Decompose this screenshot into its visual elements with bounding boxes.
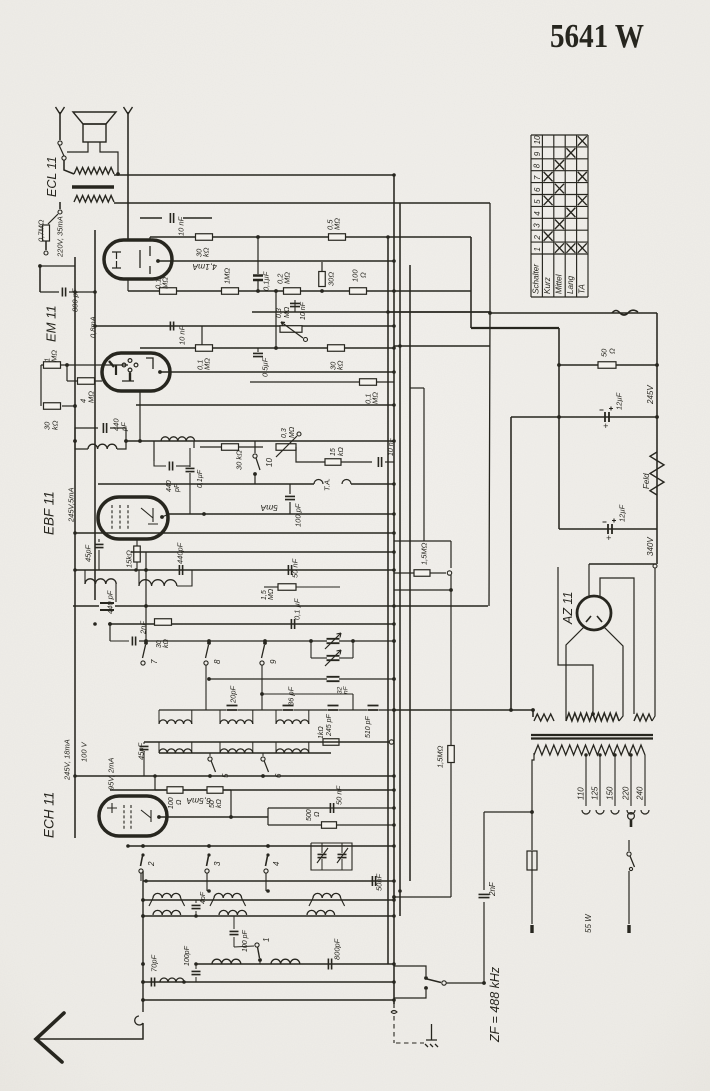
wire (209, 678, 327, 680)
svg-text:125: 125 (590, 786, 599, 800)
switch speaker (58, 141, 62, 145)
svg-text:0,1µF: 0,1µF (197, 469, 204, 488)
series capacitor row710 (283, 706, 294, 711)
wire (483, 902, 485, 983)
wire (339, 640, 394, 642)
wire to 800pF (45, 241, 47, 250)
junction (509, 708, 513, 712)
svg-text:0,3: 0,3 (281, 428, 288, 438)
wire (143, 899, 394, 901)
svg-text:T.A.: T.A. (322, 478, 331, 491)
wire (267, 808, 269, 825)
capacitor 440pF d (100, 603, 114, 610)
wire (154, 776, 156, 790)
wire (39, 266, 41, 292)
junction (392, 289, 396, 293)
wire (75, 569, 394, 571)
junction (202, 512, 206, 516)
wire (74, 257, 76, 838)
wire 220 tap plug (628, 813, 635, 820)
TA input terminals (314, 480, 351, 485)
svg-text:MΩ: MΩ (332, 218, 341, 230)
svg-text:MΩ: MΩ (370, 392, 379, 404)
resistor 1kOhm body (323, 739, 339, 746)
junction (392, 914, 396, 918)
junction (256, 235, 260, 239)
junction (655, 363, 659, 367)
junction (207, 889, 211, 893)
junction (557, 363, 561, 367)
junction (160, 515, 164, 519)
wire (143, 999, 394, 1001)
svg-text:0,3: 0,3 (276, 308, 283, 318)
capacitor 10nF top (170, 213, 173, 223)
junction (124, 439, 128, 443)
wire (149, 237, 151, 240)
junction (141, 998, 145, 1002)
wire (257, 348, 259, 352)
junction (392, 403, 396, 407)
variable capacitor b (327, 656, 340, 660)
wire (388, 311, 490, 313)
capacitor 10nF c (170, 322, 173, 331)
transformer core (531, 735, 653, 739)
wire (257, 281, 259, 291)
wire (145, 552, 147, 641)
svg-text:EBF 11: EBF 11 (42, 491, 57, 535)
output transformer primary winding (74, 168, 114, 175)
wire (95, 380, 102, 382)
wire (385, 461, 394, 463)
junction (144, 639, 148, 643)
wire (321, 843, 323, 853)
junction (557, 415, 561, 419)
svg-text:3: 3 (533, 223, 542, 228)
wire (339, 709, 367, 711)
wire (614, 755, 616, 806)
junction (392, 173, 396, 177)
wire (470, 237, 472, 328)
wire (394, 709, 533, 711)
wire (490, 312, 657, 314)
svg-text:1MΩ: 1MΩ (222, 268, 231, 284)
junction (194, 962, 198, 966)
wire (158, 710, 160, 724)
wire (254, 474, 256, 484)
loudspeaker (56, 107, 133, 142)
svg-text:100 pF: 100 pF (293, 503, 302, 527)
coil band top (276, 720, 309, 724)
wire (399, 203, 401, 916)
wire (159, 816, 268, 818)
svg-text:10 nF: 10 nF (177, 325, 186, 345)
tube AZ11 envelope (577, 596, 611, 630)
svg-text:100: 100 (168, 797, 175, 809)
wire (259, 960, 261, 964)
wire (110, 623, 394, 625)
junction (108, 622, 112, 626)
svg-text:4,1mA: 4,1mA (192, 262, 217, 272)
svg-text:440: 440 (166, 480, 173, 492)
junction (253, 472, 257, 476)
wire (589, 563, 656, 565)
wire (275, 710, 277, 724)
wire pot to 15k (296, 447, 325, 462)
capacitor 2nF bottom plates (479, 894, 490, 897)
wire (294, 310, 296, 312)
svg-text:Schalter: Schalter (532, 264, 541, 294)
wire (250, 381, 359, 383)
pot wiper ta (276, 436, 297, 457)
wire (483, 812, 485, 890)
wire (559, 528, 657, 530)
wire magnet leads (67, 142, 88, 152)
svg-text:500: 500 (306, 809, 313, 821)
resistor 30kOhm (196, 234, 213, 241)
junction (144, 568, 148, 572)
junction (398, 344, 402, 348)
junction (194, 914, 198, 918)
svg-text:245V: 245V (646, 385, 655, 405)
junction (93, 290, 97, 294)
svg-text:245V,5mA: 245V,5mA (66, 488, 75, 523)
capacitor 4pF plates (192, 905, 201, 908)
wire (252, 311, 490, 313)
svg-text:7: 7 (533, 175, 542, 180)
junction (73, 439, 77, 443)
junction (144, 641, 148, 645)
coil det (88, 444, 117, 449)
junction (266, 853, 269, 856)
svg-text:10: 10 (265, 458, 274, 467)
fuse (527, 851, 537, 870)
capacitor 800pF (62, 288, 65, 297)
wire x424 loop (423, 388, 425, 541)
svg-text:45pF: 45pF (83, 544, 92, 562)
wire (341, 461, 372, 463)
junction (398, 889, 402, 893)
wire (294, 709, 327, 711)
junction (392, 324, 396, 328)
junction (73, 531, 77, 535)
svg-text:10: 10 (533, 135, 542, 144)
junction (141, 898, 145, 902)
capacitor 50nF bottom plates (372, 876, 375, 886)
junction (424, 976, 428, 980)
wire (262, 753, 264, 756)
tube AZ11 filament (586, 616, 602, 622)
svg-text:30Ω: 30Ω (326, 272, 335, 286)
wire (531, 851, 533, 870)
junction (392, 622, 396, 626)
wire (183, 217, 212, 219)
junction (207, 641, 211, 645)
svg-text:ECL 11: ECL 11 (45, 156, 59, 197)
coil skirt (181, 898, 185, 906)
coil skirt (242, 898, 246, 906)
wire (289, 502, 291, 514)
wire (394, 540, 451, 542)
junction (392, 788, 396, 792)
junction (182, 980, 186, 984)
svg-text:800pF: 800pF (332, 938, 341, 960)
junction (392, 879, 396, 883)
coil band bottom (159, 749, 192, 753)
junction (141, 853, 144, 856)
wire (239, 446, 263, 448)
svg-text:1,5: 1,5 (261, 590, 268, 600)
junction (266, 844, 270, 848)
series capacitor row710 (368, 706, 379, 711)
wire (136, 539, 138, 546)
svg-text:5mA: 5mA (260, 503, 278, 513)
coil ant mid (219, 910, 247, 915)
wire (308, 742, 310, 753)
junction (73, 568, 77, 572)
wire (195, 911, 197, 916)
junction (531, 708, 535, 712)
wire (95, 325, 394, 327)
wire (289, 484, 291, 494)
wire (311, 657, 327, 659)
svg-text:MΩ: MΩ (49, 350, 58, 362)
wire (265, 873, 267, 891)
junction (629, 753, 632, 756)
junction (392, 980, 396, 984)
capacitor 12uF a (605, 412, 609, 422)
wire (296, 586, 340, 588)
wire (75, 775, 394, 777)
svg-text:Ω: Ω (314, 811, 321, 817)
wire az anode left (566, 626, 585, 721)
wire az filament top (588, 564, 590, 596)
capacitor 10nF ta (378, 457, 381, 467)
junction (73, 290, 77, 294)
junction (263, 641, 267, 645)
capacitor 440pF series (179, 565, 182, 575)
svg-text:5641 W: 5641 W (550, 18, 644, 55)
wire (394, 896, 451, 898)
wire (294, 300, 296, 312)
wire switch za top (394, 966, 426, 976)
junction (274, 346, 278, 350)
svg-text:MΩ: MΩ (268, 588, 275, 600)
svg-text:9: 9 (533, 151, 542, 156)
resistor 500 Ohm (322, 822, 337, 829)
wire (126, 440, 394, 442)
coil band top (159, 720, 192, 724)
capacitor 45pF osc plates (140, 746, 149, 749)
junction (141, 962, 145, 966)
wire (352, 694, 354, 710)
wire (393, 1000, 395, 1008)
junction (386, 235, 390, 239)
wire (321, 859, 323, 870)
junction (207, 853, 210, 856)
capacitor 12uF b (608, 524, 612, 534)
capacitor 0,5uF (253, 353, 263, 356)
junction (93, 622, 97, 626)
svg-text:245 pF: 245 pF (326, 713, 333, 737)
wire (40, 291, 59, 293)
svg-text:MΩ: MΩ (202, 358, 211, 370)
capacitor 45pF symbol (95, 544, 104, 547)
svg-text:EM 11: EM 11 (43, 305, 58, 342)
svg-text:100 V: 100 V (79, 741, 88, 762)
svg-text:50 nF: 50 nF (334, 785, 343, 805)
wire (339, 678, 394, 680)
svg-text:ZF = 488 kHz: ZF = 488 kHz (488, 966, 502, 1043)
wire (233, 916, 235, 929)
junction (488, 311, 492, 315)
svg-text:kΩ: kΩ (335, 360, 344, 370)
resistor 0,5MOhm (329, 234, 346, 241)
trimmer arrow g2 (317, 848, 328, 863)
wire (252, 710, 254, 724)
coil ant bottom (271, 959, 300, 964)
junction (260, 692, 264, 696)
junction (530, 810, 534, 814)
wire (559, 364, 657, 366)
junction (584, 753, 587, 756)
svg-text:Kurz: Kurz (543, 277, 552, 294)
wire (387, 237, 389, 964)
resistor 15kOhm v (134, 546, 141, 562)
svg-text:100 pF: 100 pF (242, 929, 249, 952)
svg-text:6,5mA: 6,5mA (186, 796, 211, 806)
series capacitor row710 (227, 706, 238, 711)
svg-text:ECH 11: ECH 11 (42, 792, 57, 838)
junction (613, 753, 616, 756)
wire (630, 755, 632, 806)
wire (321, 262, 323, 271)
wire az ht lead (558, 567, 593, 712)
resistor 0,7MOhm (43, 225, 50, 241)
junction (392, 677, 396, 681)
wire (169, 513, 394, 515)
svg-text:0,1µF: 0,1µF (261, 271, 270, 291)
wire (599, 755, 601, 806)
resistor 30kOhm ebf (222, 444, 239, 451)
resistor 30kOhm b (328, 345, 345, 352)
junction (392, 568, 396, 572)
junction (309, 639, 313, 643)
wire (219, 742, 221, 753)
svg-text:9: 9 (269, 659, 278, 664)
switch table X marks (544, 136, 587, 253)
junction (144, 879, 148, 883)
wire (628, 840, 630, 851)
capacitor 440pF lc (103, 423, 106, 433)
wire (201, 326, 203, 348)
wire (139, 640, 327, 642)
wire (238, 709, 282, 711)
junction (229, 815, 233, 819)
svg-text:MΩ: MΩ (282, 272, 291, 284)
wire (585, 755, 587, 806)
svg-text:MΩ: MΩ (86, 391, 95, 403)
wire ebf plate out (162, 514, 169, 517)
wire (219, 710, 221, 724)
junction (256, 289, 260, 293)
junction (157, 815, 161, 819)
wire (352, 641, 354, 658)
resistor 0,1MOhm b (196, 345, 213, 352)
potentiometer wiper (281, 322, 303, 338)
coil ant bottom (212, 959, 241, 964)
variable capacitor g2 plates (318, 854, 327, 857)
wire (195, 964, 197, 969)
junction (392, 550, 396, 554)
svg-text:240: 240 (635, 786, 644, 801)
ground symbol (425, 1024, 438, 1047)
svg-text:95V, 2mA: 95V, 2mA (106, 758, 115, 790)
capacitor 70pF plates (151, 978, 154, 987)
wire (471, 327, 559, 329)
coil ant top (313, 893, 341, 898)
svg-text:100pF: 100pF (184, 945, 191, 966)
capacitor 10nF b (290, 303, 300, 306)
variable capacitor a (327, 639, 340, 643)
wire (98, 483, 314, 485)
svg-text:50nF: 50nF (374, 873, 383, 891)
wire (136, 404, 394, 406)
junction (134, 568, 138, 572)
junction (258, 958, 262, 962)
coil ant top (153, 893, 181, 898)
junction (73, 404, 77, 408)
resistor 30kOhm em (44, 403, 61, 410)
svg-text:2nF: 2nF (138, 621, 147, 635)
field coil winding (650, 452, 664, 495)
wire (128, 845, 394, 847)
wire (109, 624, 111, 641)
wire (139, 391, 141, 441)
wire (115, 605, 488, 607)
svg-text:1,5MΩ: 1,5MΩ (419, 542, 428, 565)
capacitor 50nF ech plates (330, 803, 333, 813)
resistor 1MOhm (222, 288, 239, 295)
svg-text:440 pF: 440 pF (105, 590, 114, 614)
svg-text:510 pF: 510 pF (365, 715, 372, 738)
potentiometer 0,3MOhm body ta (276, 444, 296, 451)
coil if1 winding (139, 580, 177, 586)
svg-text:7: 7 (150, 659, 159, 664)
junction (655, 415, 659, 419)
svg-text:4pF: 4pF (200, 891, 207, 904)
svg-text:MΩ: MΩ (284, 306, 291, 318)
wire (409, 265, 411, 881)
svg-text:MΩ: MΩ (160, 277, 169, 289)
wire (200, 446, 221, 448)
svg-text:245V, 18mA: 245V, 18mA (62, 739, 71, 781)
wire (394, 589, 451, 591)
capacitor 440pF ebf2 (169, 462, 172, 471)
svg-text:kΩ: kΩ (338, 447, 345, 457)
wire (127, 112, 129, 240)
coil ebf grid winding (161, 437, 195, 441)
junction (351, 639, 355, 643)
junction (138, 439, 142, 443)
trimmer arrow g2 (337, 848, 348, 863)
svg-text:2: 2 (533, 235, 542, 241)
resistor 15kOhm ta (325, 459, 341, 466)
wire (196, 963, 394, 965)
junction (207, 677, 211, 681)
tube EM11 envelope (102, 353, 170, 391)
wire antenna lead (36, 1023, 143, 1039)
junction (320, 289, 324, 293)
